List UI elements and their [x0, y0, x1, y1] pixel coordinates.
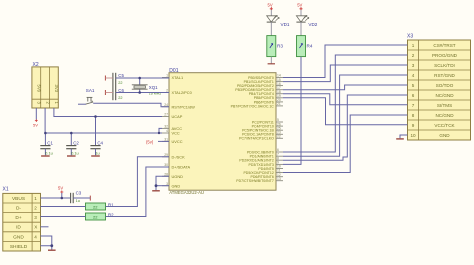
svg-text:PC7/INT4/ICP1/CLKO: PC7/INT4/ICP1/CLKO — [239, 137, 274, 141]
svg-text:3: 3 — [412, 63, 415, 68]
svg-text:R3: R3 — [277, 44, 283, 49]
junction dots — [44, 77, 160, 247]
svg-text:GND: GND — [13, 234, 24, 240]
svg-text:3: 3 — [34, 215, 37, 220]
wire X3 pin10 to ground — [400, 135, 408, 138]
power flag 5V above VD1 — [268, 2, 273, 10]
svg-text:UCAP: UCAP — [172, 114, 183, 119]
svg-text:5V: 5V — [268, 2, 273, 7]
svg-text:27: 27 — [164, 113, 168, 117]
svg-text:XTAL2/PC0: XTAL2/PC0 — [172, 90, 193, 95]
wire X3 pin7 to PB4 — [283, 94, 408, 105]
svg-text:D-: D- — [16, 206, 21, 212]
svg-text:UVCC: UVCC — [172, 139, 183, 144]
svg-text:D01: D01 — [169, 68, 178, 74]
connector X2 label — [33, 62, 39, 68]
connector X1 pin names — [10, 196, 28, 250]
wire R2 to IC D+ pin — [106, 167, 170, 217]
connector X2 cell texts — [37, 85, 60, 105]
svg-text:SO/TDO: SO/TDO — [436, 83, 454, 88]
svg-text:22: 22 — [93, 205, 98, 210]
svg-text:PB7/PCINT7/OC.0A/OC.1C: PB7/PCINT7/OC.0A/OC.1C — [231, 104, 275, 108]
IC D01 right pin stubs — [276, 78, 283, 181]
svg-text:VCC/TCK: VCC/TCK — [434, 123, 455, 128]
wire C6 right to XTAL2 — [116, 92, 169, 94]
svg-text:C1: C1 — [47, 141, 53, 146]
svg-text:1u: 1u — [76, 199, 80, 203]
svg-text:UGND: UGND — [172, 174, 184, 179]
wire X3 pin8 to PD5 — [283, 115, 408, 173]
resistor R3 — [267, 36, 284, 57]
svg-text:5V: 5V — [297, 2, 302, 7]
wire end tick left of C5 — [105, 76, 113, 81]
svg-text:4: 4 — [166, 129, 168, 133]
stub and end tick under R3 — [268, 57, 275, 64]
svg-text:D+/SDATA: D+/SDATA — [172, 165, 191, 170]
svg-text:NC/GND: NC/GND — [435, 113, 454, 118]
IC D01 refdes label — [169, 68, 178, 74]
wire R4 down to PD3 — [283, 57, 301, 165]
svg-text:2: 2 — [34, 206, 37, 211]
IC D01 left pin numbers — [164, 74, 168, 186]
svg-text:C5: C5 — [118, 73, 124, 78]
wire X3 pin3 to PB1 — [283, 65, 408, 82]
svg-text:RST/PC1/dW: RST/PC1/dW — [172, 104, 196, 109]
IC D01 left pin names — [172, 75, 196, 188]
wire R1 to IC D- pin — [106, 157, 170, 207]
svg-text:4: 4 — [412, 73, 415, 78]
svg-text:PD7/CTS/HWB/T0/INT7: PD7/CTS/HWB/T0/INT7 — [236, 179, 274, 183]
wire UGND/GND bracket to ground — [156, 176, 169, 190]
wire C5 right to XTAL1 — [116, 77, 169, 80]
IC D01 left pin stubs — [162, 78, 169, 186]
svg-text:5V: 5V — [33, 123, 38, 128]
svg-text:C3: C3 — [76, 191, 82, 196]
ground at IC GND pins — [152, 190, 160, 192]
wire SA1 to RST pin — [93, 103, 169, 106]
wire X1 D- to R1 — [41, 206, 86, 208]
svg-text:1: 1 — [34, 196, 37, 201]
connector X1 pin numbers — [34, 196, 37, 239]
svg-text:22: 22 — [118, 81, 122, 85]
svg-text:VD1: VD1 — [281, 22, 290, 27]
wire X2 pin2 down to VCC rail — [44, 108, 46, 133]
crystal XQ1 — [132, 78, 162, 95]
svg-text:C2: C2 — [73, 141, 79, 146]
svg-text:1: 1 — [412, 43, 415, 48]
capacitor C4 — [90, 117, 103, 156]
wire X2 pin1 down and UCAP rail — [54, 108, 162, 117]
svg-text:SI/TMS: SI/TMS — [437, 103, 452, 108]
resistor R1 — [86, 203, 115, 210]
svg-text:5V0: 5V0 — [37, 85, 42, 93]
capacitor C5 — [113, 73, 125, 86]
svg-text:C4: C4 — [97, 141, 103, 146]
svg-text:13: 13 — [277, 177, 281, 181]
wire end tick after C3 — [89, 196, 91, 201]
wire end tick left of C6 — [105, 90, 113, 95]
svg-text:X: X — [34, 225, 37, 230]
svg-text:1u: 1u — [95, 152, 99, 156]
wire X3 pin9 to PB5 — [283, 98, 408, 125]
svg-text:SCLK/TDI: SCLK/TDI — [434, 63, 455, 68]
power flag 5V above VD2 — [297, 2, 302, 10]
wire X1 GND pin down to shield junction — [41, 236, 52, 246]
svg-text:9: 9 — [412, 123, 415, 128]
power flag 5V at VBUS junction — [58, 186, 63, 198]
svg-text:X3: X3 — [407, 33, 413, 39]
capacitor C1 — [40, 133, 53, 156]
svg-text:SA1: SA1 — [86, 88, 95, 93]
svg-text:5V: 5V — [58, 186, 63, 191]
svg-text:4: 4 — [34, 234, 37, 239]
connector X3 pin names — [432, 43, 458, 138]
resistor R2 — [86, 213, 115, 220]
svg-text:X1: X1 — [3, 187, 9, 193]
ground under C1 — [41, 155, 50, 157]
svg-text:5: 5 — [412, 83, 415, 88]
wire X1 SHIELD to junction and ground — [41, 246, 52, 250]
connector X3 body — [408, 40, 471, 140]
connector X3 label — [407, 33, 413, 39]
svg-text:2: 2 — [412, 53, 415, 58]
svg-text:8: 8 — [412, 113, 415, 118]
svg-text:NC/GND: NC/GND — [435, 93, 454, 98]
wire VCC rail to AVCC/VCC pins — [45, 132, 162, 134]
ground under C4 — [91, 155, 100, 157]
svg-text:(5v): (5v) — [146, 139, 154, 144]
wire AVCC bracket — [159, 128, 162, 133]
wire X3 pin5 to PB3 — [283, 85, 408, 90]
svg-text:SHIELD: SHIELD — [10, 244, 28, 250]
wire stub left of SA1 — [78, 103, 86, 105]
wire X3 pin6 to PD2 — [283, 95, 408, 160]
wire X3 pin1 to PB0 — [283, 45, 408, 78]
wire X1 D+ to R2 — [41, 216, 86, 218]
svg-text:ID: ID — [16, 225, 21, 231]
svg-text:3V3: 3V3 — [54, 85, 59, 93]
svg-text:XTAL1: XTAL1 — [172, 75, 184, 80]
ground under C2 — [67, 155, 76, 157]
svg-text:GND: GND — [172, 183, 181, 188]
connector X1 body — [3, 193, 41, 251]
LED VD2 — [296, 9, 317, 36]
svg-text:VCC: VCC — [172, 131, 180, 136]
wire X2 pin3 to 5V flag — [35, 108, 37, 120]
capacitor C2 — [66, 133, 79, 156]
svg-text:PROG/GND: PROG/GND — [432, 53, 458, 58]
svg-text:32: 32 — [164, 125, 168, 129]
svg-text:CS#/TRST: CS#/TRST — [433, 43, 455, 48]
capacitor C3 (series, VBUS line) — [71, 191, 82, 204]
wire C3 to end tick — [73, 197, 90, 199]
svg-text:ATMEGA32U2-AU: ATMEGA32U2-AU — [169, 190, 204, 195]
svg-text:1: 1 — [166, 74, 168, 78]
svg-text:VBUS: VBUS — [12, 196, 25, 202]
svg-text:XQ1: XQ1 — [149, 85, 158, 90]
svg-text:22: 22 — [118, 96, 122, 100]
svg-text:7: 7 — [412, 103, 415, 108]
svg-text:10: 10 — [410, 133, 416, 138]
svg-text:RST/GND: RST/GND — [434, 73, 455, 78]
IC D01 right pin names — [231, 76, 275, 183]
wire GND pin stub — [156, 185, 169, 187]
IC D01 right pin numbers — [277, 74, 281, 181]
power flag 5V under X2 pin3 — [33, 119, 38, 127]
ground at X3 pin10 — [396, 138, 404, 140]
wire X3 pin4 to PD1 — [283, 75, 408, 156]
connector X3 pin numbers — [410, 43, 416, 138]
capacitor C6 — [113, 86, 125, 100]
wire X1 VBUS row to C3 — [41, 197, 71, 199]
svg-text:6: 6 — [412, 93, 415, 98]
net label 5V at UVCC — [146, 139, 154, 144]
ground at X1 — [48, 249, 56, 251]
svg-text:R4: R4 — [307, 44, 313, 49]
LED VD1 — [267, 9, 290, 36]
switch SA1 — [86, 88, 95, 104]
svg-text:D+: D+ — [15, 215, 21, 221]
wire X1 ID stub — [41, 226, 49, 228]
svg-text:0.1u: 0.1u — [71, 152, 78, 156]
connector X2 body — [32, 67, 58, 108]
IC D01 body — [169, 73, 276, 191]
svg-text:0.1u: 0.1u — [45, 152, 52, 156]
wire X3 pin2 to PD0 — [283, 55, 408, 152]
svg-text:VD2: VD2 — [308, 22, 317, 27]
IC D01 value label ATMEGA32U2-AU — [169, 190, 204, 195]
svg-text:GND: GND — [439, 133, 450, 138]
connector X1 label — [3, 187, 9, 193]
wire UVCC stub — [158, 140, 169, 142]
svg-text:22: 22 — [93, 215, 98, 220]
svg-text:21: 21 — [277, 102, 281, 106]
svg-text:D-/SCK: D-/SCK — [172, 155, 186, 160]
svg-text:22: 22 — [277, 135, 281, 139]
resistor R4 — [297, 36, 313, 57]
